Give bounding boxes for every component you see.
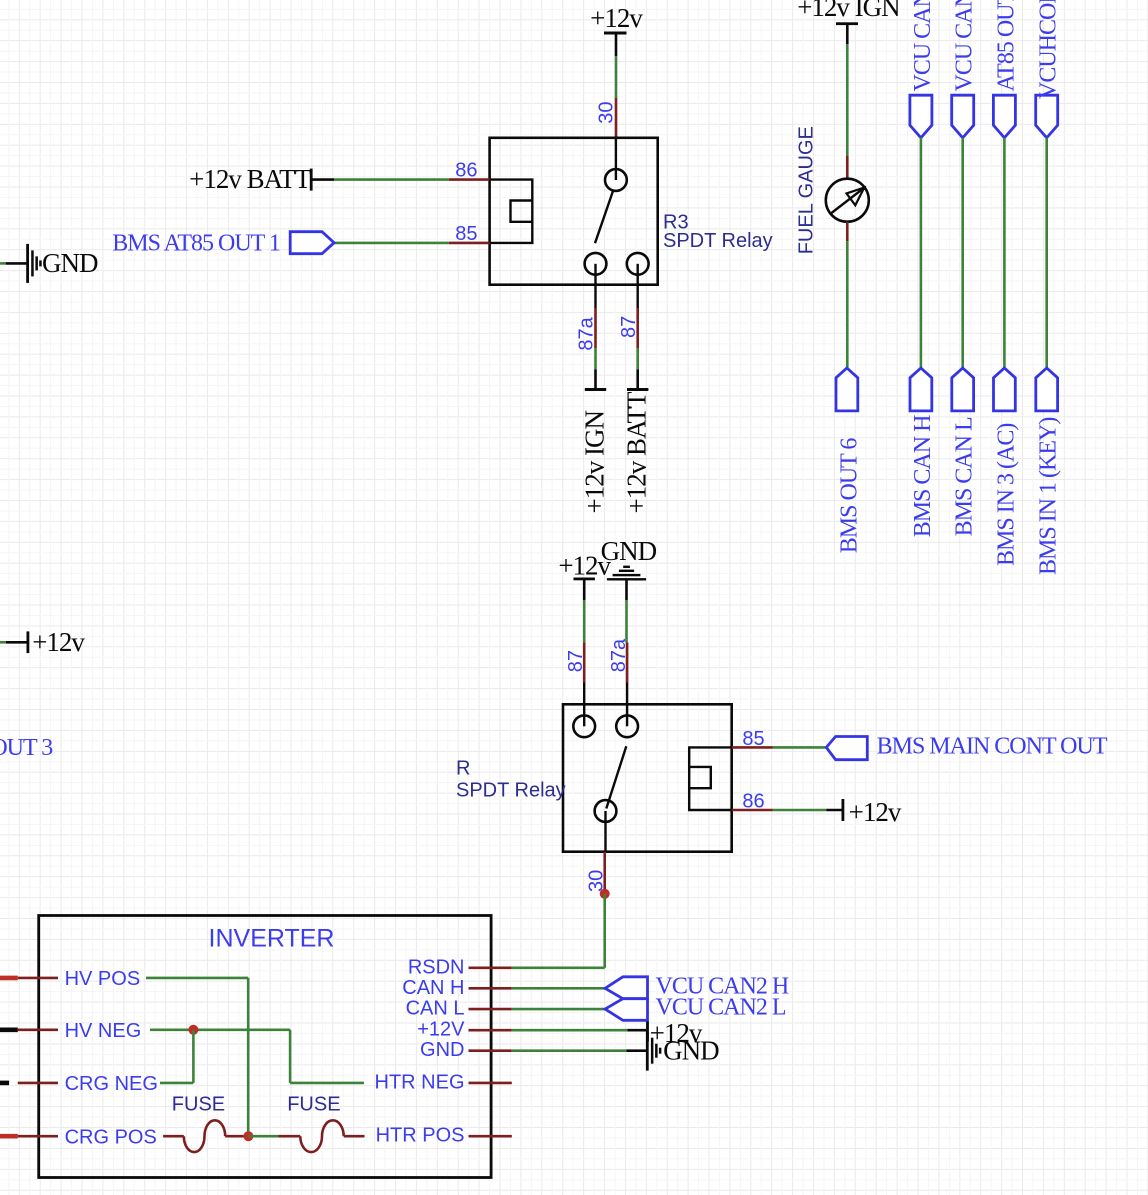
wire 86 green relay R	[773, 809, 827, 812]
netflag connector VCU CAN2 L	[605, 999, 647, 1021]
svg-text:CAN L: CAN L	[406, 998, 465, 1020]
fuel gauge meter M1	[826, 179, 869, 222]
svg-text:CAN H: CAN H	[402, 977, 464, 999]
svg-text:+12v: +12v	[32, 627, 85, 657]
svg-text:BMS IN 3 (AC): BMS IN 3 (AC)	[993, 424, 1019, 566]
svg-text:HV NEG: HV NEG	[65, 1020, 142, 1042]
svg-text:CRG POS: CRG POS	[65, 1127, 157, 1149]
svg-text:RSDN: RSDN	[408, 956, 465, 978]
pin 87a stub relay R	[626, 642, 629, 726]
svg-text:FUEL GAUGE: FUEL GAUGE	[796, 126, 818, 254]
pin 87 stub relay R	[583, 642, 586, 726]
svg-text:GND: GND	[42, 248, 98, 278]
netflag connector BMS AT85 OUT 1	[290, 232, 334, 254]
wire 85 green relay R	[773, 746, 827, 749]
svg-text:BMS AT85 OUT 1: BMS AT85 OUT 1	[112, 231, 280, 257]
wire VCU CAN H vertical green	[920, 138, 923, 368]
netflag connector BMS CAN H bottom	[910, 368, 932, 411]
svg-text:85: 85	[742, 728, 764, 750]
pin 85 stub relay R	[732, 746, 773, 749]
netflag connector BMS CAN L bottom	[952, 368, 974, 411]
power flag +12v BATT below R3	[622, 369, 652, 513]
power flag +12v IGN below R3	[579, 369, 609, 513]
pin HV NEG	[18, 1020, 141, 1042]
netflag connector VCU CAN H top	[910, 95, 932, 138]
relay R coil notch	[689, 767, 711, 788]
inverter body	[39, 916, 491, 1178]
pin 86 stub relay R	[732, 809, 773, 812]
wire HV POS internal green	[146, 978, 248, 1136]
relay R3 NC terminal circle	[585, 253, 607, 275]
svg-text:87: 87	[618, 316, 640, 338]
wire 85 green	[334, 242, 449, 245]
svg-text:GND: GND	[420, 1039, 464, 1061]
relay R common terminal circle	[595, 800, 617, 822]
pin HV POS	[18, 968, 140, 990]
ground GND inverter	[627, 1031, 720, 1070]
svg-text:CRG NEG: CRG NEG	[65, 1073, 158, 1095]
relay R3 switch blade	[595, 190, 613, 243]
svg-text:HTR POS: HTR POS	[376, 1125, 465, 1147]
relay R3 coil	[490, 180, 533, 243]
wire RSDN green horizontal	[512, 966, 605, 969]
relay R switch blade	[606, 746, 626, 808]
svg-text:FUSE: FUSE	[287, 1094, 340, 1116]
svg-text:30: 30	[586, 870, 608, 892]
svg-text:HV POS: HV POS	[65, 968, 141, 990]
svg-text:GND: GND	[601, 536, 657, 566]
svg-text:VCU CAN H: VCU CAN H	[910, 0, 936, 92]
svg-text:AT85 OUT 1: AT85 OUT 1	[993, 0, 1019, 92]
svg-text:SPDT Relay: SPDT Relay	[663, 230, 773, 252]
netflag connector VCUHCONT top	[1036, 95, 1058, 138]
svg-text:BMS MAIN CONT OUT: BMS MAIN CONT OUT	[877, 733, 1108, 759]
svg-text:AT85 OUT 3: AT85 OUT 3	[0, 735, 53, 761]
pin CRG POS	[18, 1127, 157, 1149]
svg-text:BMS CAN L: BMS CAN L	[952, 417, 978, 536]
external wire CRG NEG thick black	[0, 1081, 9, 1086]
wire between fuses green	[248, 1135, 278, 1138]
power flag +12v left edge	[0, 627, 85, 657]
wire GND green	[512, 1049, 627, 1052]
svg-text:30: 30	[596, 101, 618, 123]
pin GND inverter	[420, 1039, 512, 1061]
wire 87 green	[636, 348, 639, 369]
netflag connector BMS OUT 6	[836, 368, 858, 411]
wire RSDN vertical green	[603, 894, 606, 968]
pin 86 stub R3	[449, 178, 490, 181]
netflag connector VCU CAN2 H	[605, 977, 647, 999]
netflag connector BMS MAIN CONT OUT	[826, 737, 867, 760]
svg-text:86: 86	[742, 791, 764, 813]
wire CRG NEG internal green	[160, 1030, 193, 1083]
junction dot CRG POS	[243, 1131, 253, 1141]
pin RSDN	[408, 956, 512, 978]
pin 30 stub R3	[615, 98, 618, 138]
power flag +12v right of relay R	[826, 797, 902, 827]
svg-text:GND: GND	[663, 1036, 719, 1066]
relay R3 body	[490, 138, 658, 285]
netflag connector BMS IN 3 bottom	[994, 368, 1016, 411]
svg-text:+12v: +12v	[590, 3, 643, 33]
svg-text:87a: 87a	[608, 638, 630, 672]
power flag +12v BATT	[189, 164, 334, 194]
relay R3 NO terminal circle	[627, 253, 649, 275]
pin +12V inverter	[417, 1019, 512, 1041]
pin 87a stub below R3	[594, 264, 596, 348]
ground GND above relay R	[601, 536, 657, 600]
fuse F2	[279, 1120, 365, 1152]
power flag +12v inverter	[627, 1018, 702, 1048]
external wire HV NEG thick black	[0, 1028, 18, 1033]
svg-text:+12V: +12V	[417, 1019, 465, 1041]
relay R3 common terminal circle	[605, 169, 627, 191]
relay R terminal circle 87	[573, 715, 595, 737]
wire HV NEG internal green	[150, 1030, 364, 1083]
svg-text:VCUHCONT: VCUHCONT	[1036, 0, 1062, 99]
ground GND left	[6, 244, 98, 283]
relay R terminal circle 87a	[616, 715, 638, 737]
svg-text:HTR NEG: HTR NEG	[375, 1071, 465, 1093]
relay R body	[563, 704, 732, 851]
fuel gauge pin stub top	[846, 156, 849, 179]
svg-text:86: 86	[455, 160, 477, 182]
wire 87a upper green (relay R)	[625, 600, 628, 642]
pin 85 stub R3	[449, 242, 490, 245]
svg-text:BMS IN 1 (KEY): BMS IN 1 (KEY)	[1036, 418, 1062, 575]
power flag +12v above relay R	[558, 551, 611, 601]
pin CAN H	[402, 977, 512, 999]
fuel gauge pin stub bottom	[846, 222, 849, 241]
svg-text:87a: 87a	[576, 316, 598, 350]
svg-text:+12v IGN: +12v IGN	[797, 0, 900, 22]
wire VCU CAN L vertical green	[961, 138, 964, 368]
netflag connector VCU CAN L top	[952, 95, 974, 138]
pin 30 stub relay R	[604, 811, 607, 893]
relay R3 common terminal wire	[615, 138, 617, 180]
junction dot HV NEG	[188, 1025, 198, 1035]
wire AT85 OUT vertical green	[1003, 138, 1006, 368]
external wire HV POS thick red	[0, 976, 18, 981]
pin 87 stub below R3	[637, 264, 639, 348]
pin CAN L	[406, 998, 512, 1020]
wire to GND left green	[0, 262, 6, 265]
svg-text:VCU CAN L: VCU CAN L	[952, 0, 978, 92]
relay R label	[456, 758, 566, 802]
power flag +12v top	[590, 3, 643, 56]
svg-text:85: 85	[455, 223, 477, 245]
wire CAN L green	[512, 1008, 605, 1011]
pin CRG NEG	[18, 1073, 158, 1095]
relay R coil	[689, 747, 732, 810]
svg-text:FUSE: FUSE	[172, 1094, 225, 1116]
svg-text:+12v IGN: +12v IGN	[579, 411, 609, 514]
svg-text:R: R	[456, 758, 470, 780]
svg-text:BMS CAN H: BMS CAN H	[910, 415, 936, 537]
wire net30 top green	[615, 56, 618, 98]
relay R3 coil notch	[511, 201, 533, 222]
pin HTR POS stub	[469, 1135, 512, 1138]
wire BMS OUT 6 green	[846, 241, 849, 368]
wire 87 upper green (relay R)	[583, 600, 586, 642]
relay R3 label	[663, 212, 773, 252]
netflag connector AT85 OUT top	[993, 95, 1015, 138]
power flag +12v IGN top right	[797, 0, 900, 44]
wire fuel gauge top green	[846, 44, 849, 156]
svg-text:BMS OUT 6: BMS OUT 6	[837, 438, 863, 554]
pin HTR NEG stub	[469, 1082, 512, 1085]
svg-text:+12v BATT: +12v BATT	[189, 164, 311, 194]
wire +12V green	[512, 1029, 628, 1032]
external wire CRG POS thick red	[0, 1134, 18, 1139]
svg-text:INVERTER: INVERTER	[209, 925, 335, 953]
junction dot RSDN	[600, 889, 610, 899]
svg-text:87: 87	[565, 650, 587, 672]
wire 87a green	[594, 348, 597, 369]
svg-text:VCU CAN2 L: VCU CAN2 L	[656, 995, 786, 1021]
wire 86 green	[334, 178, 449, 181]
svg-text:+12v BATT: +12v BATT	[622, 391, 652, 513]
wire VCUHCONT vertical green	[1045, 138, 1048, 368]
wire CAN H green	[512, 987, 605, 990]
svg-text:SPDT Relay: SPDT Relay	[456, 779, 566, 801]
netflag connector BMS IN 1 bottom	[1036, 368, 1058, 411]
fuse F1	[163, 1120, 243, 1152]
svg-text:+12v: +12v	[849, 797, 902, 827]
